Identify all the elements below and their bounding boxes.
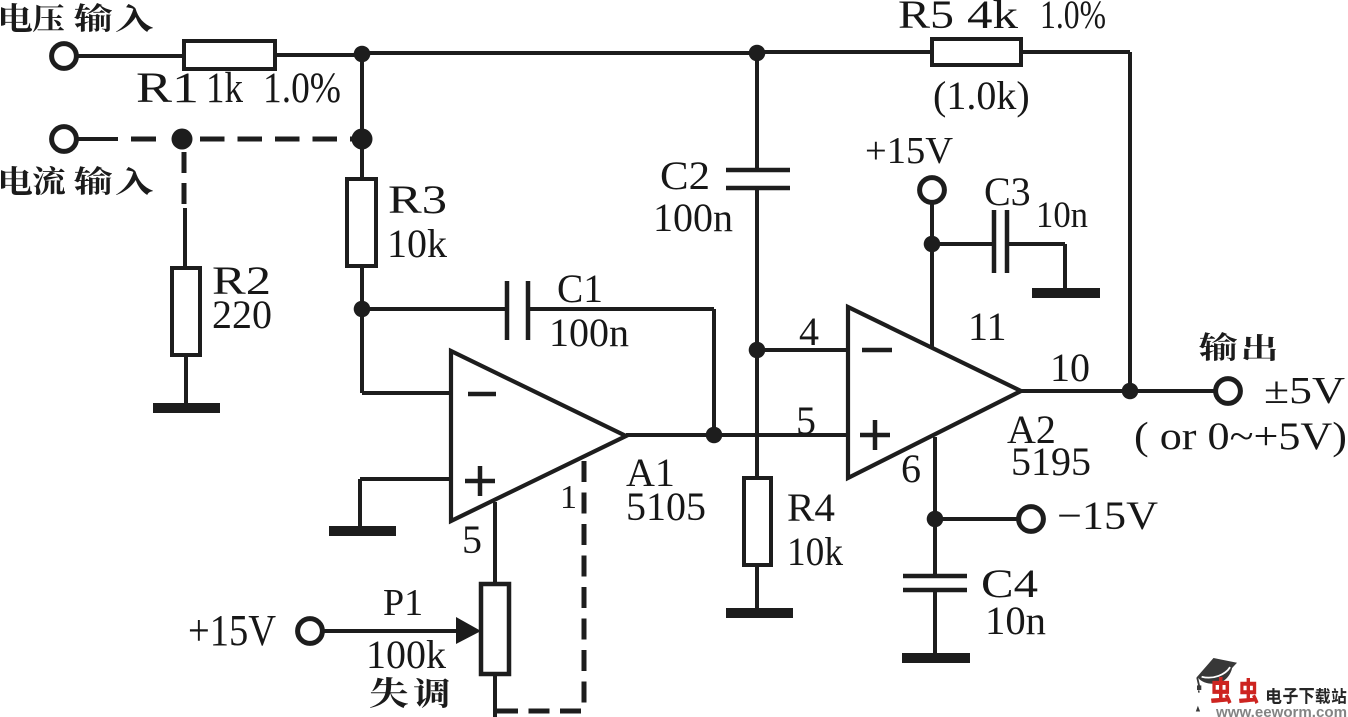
dashed wire node C down: [182, 152, 187, 208]
terminal current input: [52, 127, 77, 152]
svg-text:www.eeworm.com: www.eeworm.com: [1215, 704, 1347, 717]
P1 wiper arrowhead: [456, 617, 481, 644]
svg-text:10k: 10k: [387, 221, 447, 266]
wire node E down: [360, 309, 364, 393]
label ±5V: [1264, 370, 1346, 412]
wire node G down to R4: [755, 350, 759, 478]
wire node E to C1: [362, 307, 507, 311]
A1 pin 5 label: [462, 517, 482, 562]
label (1.0k): [933, 73, 1030, 118]
wire C2 down to node G: [755, 188, 759, 350]
ground R4: [726, 608, 793, 618]
A1 pin 5 wire: [493, 502, 497, 584]
node I junction: [927, 511, 944, 528]
A2 pin 10 label: [1050, 345, 1090, 390]
svg-text:5105: 5105: [626, 484, 706, 529]
svg-text:10n: 10n: [1036, 195, 1088, 236]
wire R4 to ground: [755, 565, 759, 611]
terminal voltage input: [52, 44, 77, 69]
label R2 220: [212, 258, 272, 337]
svg-text:100n: 100n: [549, 310, 629, 355]
svg-text:C1: C1: [557, 266, 603, 311]
svg-text:±5V: ±5V: [1264, 370, 1346, 412]
A2 pin 4 label: [799, 309, 819, 354]
svg-text:220: 220: [212, 292, 272, 337]
label A2 5195: [1007, 407, 1091, 484]
svg-text:6: 6: [901, 446, 921, 491]
wire A2 pin 6 down: [933, 437, 937, 519]
wire node D down to R3: [360, 139, 364, 179]
wire A1 noninverting input: [360, 477, 451, 481]
label P1 100k: [366, 582, 446, 677]
A2 pin 6 label: [901, 446, 921, 491]
wire node B down to C2: [755, 53, 759, 170]
node G junction: [749, 342, 766, 359]
svg-text:11: 11: [968, 304, 1007, 349]
svg-text:R1: R1: [136, 65, 199, 112]
wire node I down to C4: [933, 519, 937, 576]
A1 minus sign: [468, 392, 496, 397]
A2 minus sign: [862, 348, 892, 353]
dashed wire current input to node C: [131, 137, 156, 142]
svg-text:10n: 10n: [985, 598, 1046, 643]
ground C3: [1032, 288, 1100, 298]
svg-text:1k: 1k: [206, 65, 243, 112]
dashed wire node C to node D: [200, 137, 354, 142]
label C2 100n: [653, 153, 733, 240]
node C junction (dashed): [172, 129, 193, 150]
A1 pin 1 dashed wire down: [582, 461, 587, 711]
svg-text:P1: P1: [383, 582, 423, 624]
label R3 10k: [387, 177, 447, 266]
svg-text:4: 4: [799, 309, 819, 354]
resistor R5: [932, 39, 1021, 65]
ground R2: [153, 403, 220, 413]
label 失调 (offset): [370, 677, 449, 708]
wire node A down to node D: [360, 54, 364, 139]
label R1 1k 1.0%: [136, 65, 341, 112]
wire R2 to ground: [184, 355, 188, 403]
potentiometer P1: [481, 584, 509, 674]
logo www.eeworm.com text: [1215, 704, 1347, 717]
node B junction (C2 top): [749, 45, 766, 62]
terminal +15V A2: [920, 178, 945, 203]
output node junction: [1122, 383, 1139, 400]
svg-text:5: 5: [796, 398, 816, 443]
svg-text:5195: 5195: [1011, 439, 1091, 484]
svg-text:C2: C2: [660, 153, 710, 198]
logo 电子下载站 text: [1267, 688, 1346, 704]
svg-text:100k: 100k: [366, 632, 446, 677]
wire C3 to ground corner: [1007, 242, 1065, 246]
wire to A1 inverting input: [362, 391, 451, 395]
label C3 10n: [984, 169, 1088, 236]
svg-text:1.0%: 1.0%: [1040, 0, 1106, 37]
wire input to R1: [76, 54, 184, 58]
label C1 100n: [549, 266, 629, 355]
wire node H down to A2: [930, 244, 934, 347]
label -15V: [1057, 493, 1158, 538]
resistor R3: [347, 179, 376, 266]
wire node G to A2 inverting input: [757, 348, 848, 352]
wire A1 output: [626, 433, 848, 437]
node D junction: [352, 129, 373, 150]
wire +15V down to node H: [930, 202, 934, 244]
svg-text:10: 10: [1050, 345, 1090, 390]
wire down to ground A1: [358, 479, 362, 527]
wire node I to -15V terminal: [935, 517, 1019, 521]
ground A1: [329, 526, 396, 536]
svg-text:1: 1: [560, 479, 577, 516]
label 输出 (output): [1199, 332, 1276, 361]
A1 pin 1 label: [560, 479, 577, 516]
A2 pin 5 label: [796, 398, 816, 443]
svg-text:R3: R3: [388, 177, 447, 222]
A1 plus sign: [465, 466, 495, 496]
terminal -15V: [1019, 507, 1044, 532]
label 电压输入 (voltage input): [1, 3, 153, 32]
P1 bottom wire: [493, 674, 497, 717]
ground C4: [902, 653, 970, 663]
svg-text:( or 0~+5V): ( or 0~+5V): [1134, 415, 1347, 458]
svg-text:5: 5: [462, 517, 482, 562]
capacitor C4: [903, 576, 967, 590]
svg-text:C3: C3: [984, 169, 1031, 214]
node H junction: [924, 236, 941, 253]
dashed wire bottom horizontal: [497, 709, 584, 714]
resistor R2: [172, 268, 200, 355]
resistor R4: [744, 478, 771, 565]
resistor R1: [184, 41, 275, 69]
svg-text:R5: R5: [898, 0, 954, 37]
node A junction: [354, 46, 371, 63]
wire down to R2: [183, 208, 187, 268]
node E junction: [354, 301, 371, 318]
wire C1 to corner: [528, 307, 714, 311]
logo 虫虫 red text: [1211, 677, 1259, 704]
svg-text:R4: R4: [787, 485, 835, 530]
label A1 5105: [626, 450, 706, 529]
capacitor C2: [726, 170, 790, 188]
wire C4 to ground: [933, 590, 937, 653]
svg-text:+15V: +15V: [865, 130, 954, 172]
label R4 10k: [787, 485, 843, 574]
label +15V (A2 supply): [865, 130, 954, 172]
wire A2 output: [1021, 389, 1217, 393]
svg-text:(1.0k): (1.0k): [933, 73, 1030, 118]
terminal output: [1216, 379, 1241, 404]
node F junction (A1 output): [706, 427, 723, 444]
wire R1 to node A: [275, 53, 362, 57]
logo graduation cap: [1196, 658, 1237, 712]
svg-text:10k: 10k: [787, 529, 843, 574]
wire node H to C3: [932, 242, 994, 246]
label 电流输入 (current input): [1, 166, 153, 195]
wire node A to C2 node: [362, 51, 757, 55]
capacitor C3: [994, 210, 1007, 273]
label ( or 0~+5V): [1134, 415, 1347, 458]
A2 plus sign: [860, 420, 890, 450]
wire C2 node to R5: [757, 50, 932, 54]
svg-text:+15V: +15V: [188, 606, 276, 655]
svg-text:4k: 4k: [967, 0, 1018, 37]
A2 pin 11 label: [968, 304, 1007, 349]
svg-text:100n: 100n: [653, 195, 733, 240]
wire corner down to node F: [712, 309, 716, 435]
wire +15V to P1 wiper: [322, 629, 460, 633]
op-amp A2: [848, 307, 1021, 478]
label R5 4k 1.0%: [898, 0, 1106, 37]
wire R3 to node E: [360, 266, 364, 309]
svg-text:−15V: −15V: [1057, 493, 1158, 538]
capacitor C1: [507, 281, 528, 340]
wire R5 to corner: [1021, 50, 1130, 54]
wire corner down to output node: [1128, 52, 1132, 391]
svg-text:1.0%: 1.0%: [263, 65, 341, 112]
wire current input stub: [76, 137, 118, 141]
terminal +15V P1: [298, 619, 323, 644]
label +15V (P1 supply): [188, 606, 276, 655]
label C4 10n: [981, 561, 1046, 643]
op-amp A1: [451, 351, 626, 521]
